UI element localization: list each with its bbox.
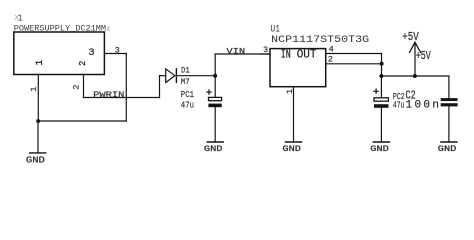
svg-text:47u: 47u (393, 100, 405, 111)
capacitor PC2 plus top plate (374, 98, 388, 101)
wire X1 pin1 down (37, 75, 39, 122)
wire X1 pin3 stub (104, 53, 126, 55)
node junction rail +5V (413, 74, 417, 78)
capacitor PC2 plus sign (374, 90, 378, 92)
capacitor PC1 plus sign (207, 91, 211, 93)
ground GND2 bar (207, 141, 223, 143)
svg-text:GND: GND (26, 154, 45, 165)
node junction rail-PC2 (379, 74, 383, 78)
svg-text:+5V: +5V (402, 31, 419, 44)
connector X1 body (14, 32, 105, 75)
wire net PWRIN horizontal (84, 97, 160, 99)
wire bottom ground horizontal (38, 120, 126, 122)
ground GND4 bar (373, 141, 389, 143)
capacitor C2 bottom plate (441, 103, 458, 106)
svg-text:GND: GND (282, 144, 301, 154)
svg-text:47u: 47u (181, 100, 194, 111)
svg-text:GND: GND (204, 144, 223, 154)
svg-text:POWERSUPPLY_DC21MM: POWERSUPPLY_DC21MM (14, 24, 106, 33)
capacitor C2 top plate (441, 98, 458, 101)
ground GND3 bar (286, 141, 302, 143)
svg-text:+5V: +5V (416, 50, 431, 63)
capacitor PC1 bottom plate (208, 104, 221, 108)
regulator U1 body (270, 49, 326, 87)
wire PC2 down from rail (380, 76, 382, 98)
svg-text:OUT: OUT (297, 48, 317, 61)
ground GND1 bar (30, 152, 46, 154)
svg-text:3: 3 (263, 45, 268, 55)
wire right vertical down to rail (381, 54, 383, 77)
wire junction up to VIN level (214, 54, 216, 76)
wire +5V rail horizontal (382, 75, 449, 77)
diode D1 cathode bar (175, 69, 177, 83)
svg-text:1: 1 (29, 87, 39, 92)
svg-text:PWRIN: PWRIN (93, 90, 124, 100)
svg-text:2: 2 (78, 61, 88, 66)
node junction pin4-pin2 (380, 62, 384, 66)
ground GND5 bar (441, 141, 457, 143)
svg-text:M7: M7 (181, 77, 190, 87)
wire C2 down from rail (448, 76, 450, 98)
svg-text:3: 3 (89, 48, 95, 59)
capacitor PC2 bottom plate (374, 104, 389, 108)
wire U1 pin3 stub (261, 53, 270, 55)
supply +5V stem (414, 42, 416, 76)
svg-text:IN: IN (281, 48, 291, 61)
svg-text:2: 2 (328, 55, 333, 65)
wire U1 pin4 to corner (326, 53, 382, 55)
diode D1 triangle (166, 69, 175, 83)
wire PWRIN up to diode anode (159, 76, 161, 98)
wire junction down to PC1 (214, 76, 216, 98)
svg-text:2: 2 (72, 85, 82, 90)
wire to GND1 (37, 121, 39, 153)
svg-text:1: 1 (34, 60, 45, 66)
wire net VIN to U1 pin3 (215, 53, 270, 55)
wire X1 pin3 vertical (125, 54, 127, 122)
svg-text:GND: GND (370, 144, 389, 154)
svg-text:1: 1 (18, 14, 23, 24)
wire X1 pin2 down (83, 75, 85, 98)
wire PC2 to GND4 (380, 108, 382, 142)
wire C2 to GND5 (448, 106, 450, 142)
supply +5V arrowhead (410, 42, 421, 52)
wire PC1 to GND2 (214, 107, 216, 142)
node junction diode/PC1/VIN (213, 74, 217, 78)
svg-text:4: 4 (329, 44, 334, 54)
svg-text:3: 3 (115, 45, 120, 55)
capacitor PC1 plus top plate (209, 97, 222, 100)
wire diode cathode to junction (176, 75, 215, 77)
svg-text:PC1: PC1 (181, 89, 194, 100)
wire U1 pin1 down to GND3 (293, 87, 295, 142)
node junction X1 ground (36, 119, 40, 123)
svg-text:X: X (106, 26, 110, 34)
svg-text:NCP1117ST50T3G: NCP1117ST50T3G (271, 35, 369, 46)
svg-text:U1: U1 (270, 24, 280, 35)
svg-text:GND: GND (438, 144, 457, 154)
wire into diode anode (160, 75, 166, 77)
svg-text:VIN: VIN (226, 47, 245, 57)
svg-text:D1: D1 (181, 65, 190, 75)
svg-text:1: 1 (285, 89, 295, 94)
wire U1 pin2 to junction (326, 63, 382, 65)
